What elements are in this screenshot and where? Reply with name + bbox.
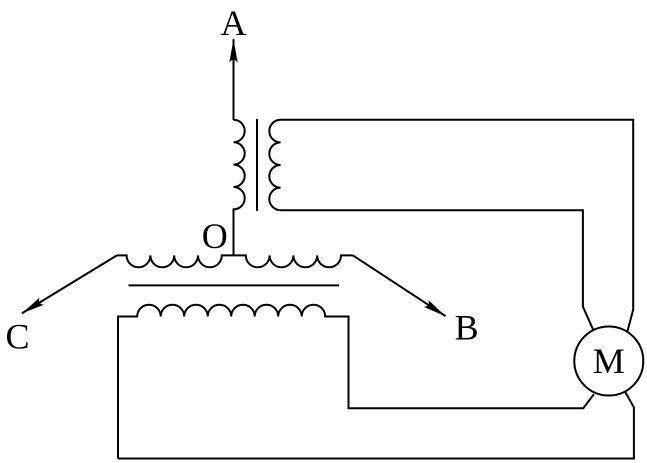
wire: phase lead to A with arrowhead <box>233 39 235 120</box>
core line between windings <box>129 284 340 286</box>
svg-text:A: A <box>221 3 247 43</box>
svg-text:C: C <box>5 317 29 357</box>
motor M (circle) <box>574 327 643 396</box>
svg-text:O: O <box>202 216 228 256</box>
lower winding (8 turns) with loop wires to motor <box>118 305 594 459</box>
svg-text:M: M <box>593 341 625 381</box>
transformer T1 secondary winding with wires to motor M <box>269 120 633 332</box>
bottom return wire to motor <box>118 392 634 458</box>
transformer T1 primary winding (vertical, 4 turns) <box>234 120 245 256</box>
transformer T1 core bar <box>256 119 258 211</box>
wire: arrow to B <box>353 255 446 316</box>
wire: arrow to C <box>22 255 117 313</box>
svg-text:B: B <box>455 308 479 348</box>
winding O-B / O-C (horizontal, 8 turns with center tap at O) <box>117 255 353 267</box>
